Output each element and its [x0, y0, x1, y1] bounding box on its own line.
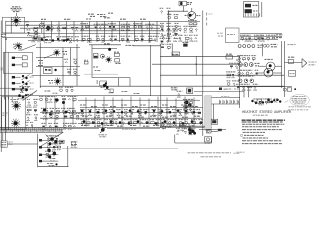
group band x62 lower block	[63, 113, 80, 129]
jack J2 cluster row 3	[22, 75, 24, 77]
label row above top chain	[41, 18, 46, 20]
group Q23 rays	[183, 99, 194, 111]
group S2 parts	[253, 99, 269, 105]
resistor R1	[34, 38, 37, 40]
wire mid-left h2	[36, 56, 63, 58]
svg-text:MODEL AA-181: MODEL AA-181	[253, 114, 269, 117]
label output row 3	[255, 62, 260, 64]
label AC left margin	[9, 141, 13, 143]
wire row2 bus	[28, 32, 160, 34]
wire right of bar 2	[211, 103, 240, 105]
wire vertical V5	[150, 45, 152, 96]
caption line 1	[188, 152, 232, 154]
capacitor C7 row2 mid group	[121, 36, 132, 42]
group band blobs row2	[83, 120, 86, 123]
wire heater run b	[107, 127, 160, 129]
wire drop x196	[195, 56, 197, 75]
group small parts x160-180 rows	[160, 23, 180, 43]
wire left enclosure inner b	[4, 97, 6, 130]
group S1 bottom cluster	[18, 94, 21, 97]
rectifier D3 blob	[47, 149, 50, 152]
label K1 right	[253, 4, 258, 6]
label right of R24	[122, 128, 136, 130]
wire can row drop	[261, 44, 263, 57]
group small parts top of mid-right	[160, 44, 173, 49]
group heater wiring cluster	[161, 124, 173, 129]
wire right of bar top	[211, 96, 240, 98]
resistor R27 stack b	[115, 59, 120, 62]
notes heading line	[242, 119, 285, 121]
cable tick texture	[2, 128, 61, 132]
label left column marks	[2, 34, 6, 36]
transistor Q8 star	[54, 78, 61, 86]
transistor Q9	[100, 54, 104, 58]
note item circle	[240, 134, 242, 136]
wire band horizontal x80-200 a	[78, 99, 200, 101]
group band x62 block	[61, 96, 77, 114]
group bias parts right upper	[64, 59, 77, 64]
wire vertical V1	[202, 11, 204, 137]
wire band horizontal x80-200 c	[78, 123, 202, 125]
label AC box	[2, 142, 7, 144]
wire top bus 3	[20, 27, 160, 29]
capacitor C1	[34, 29, 38, 31]
wire lower left horizontal 2	[2, 37, 46, 39]
group above LS2	[19, 87, 30, 93]
wire mid-left v2	[62, 48, 64, 87]
switch S1 contact row 3	[12, 76, 15, 78]
group output row 2	[237, 56, 256, 62]
transistor Q22 low	[250, 79, 254, 83]
wire T2 right leads	[275, 65, 282, 67]
wire top chain partial bus a	[80, 30, 160, 32]
note line 8	[242, 143, 282, 145]
wire lower bus 3	[40, 117, 202, 119]
resistor R15 top-right row	[254, 35, 265, 41]
wire bus extension	[63, 128, 80, 130]
resistor R25 right of T4	[207, 129, 211, 133]
node A	[16, 25, 17, 26]
label loop top	[104, 43, 110, 45]
transformer T3 cluster	[46, 136, 61, 150]
capacitor C9 electrolytic	[179, 1, 186, 6]
transistor Q4 power	[188, 12, 196, 20]
relay K1 box	[243, 2, 258, 17]
resistor R19 tag	[172, 52, 180, 56]
resistor R21 out right	[288, 59, 293, 63]
notes heading line 2	[242, 121, 283, 123]
note line 3	[242, 129, 282, 131]
wire bottom loop horizontal	[175, 142, 212, 144]
wire loop drop right	[117, 78, 119, 87]
group band top cluster	[59, 87, 73, 92]
resistor R17 elements	[45, 69, 47, 71]
group band row lower	[80, 120, 203, 126]
wire power bus 2	[0, 129, 63, 131]
node mid junction	[196, 63, 197, 64]
transistor Q2 group	[80, 24, 89, 30]
resistor R3 group	[70, 25, 80, 31]
wire bottom bus	[0, 126, 212, 128]
wire right row bus c	[240, 38, 278, 40]
group band bottom labels	[81, 124, 88, 126]
wire row3 bus	[28, 40, 156, 42]
transformer T4 driver	[188, 127, 192, 131]
transformer T1 can	[39, 23, 44, 28]
balloon note outline	[290, 94, 310, 106]
speaker LS2	[12, 101, 21, 110]
wire band cross verticals	[45, 97, 47, 127]
resistor R17 box	[44, 68, 52, 74]
resistor R4 row2 group	[31, 36, 42, 42]
wire bottom loop vertical	[174, 135, 176, 144]
wire left enclosure inner	[8, 97, 10, 130]
svg-text:HEATHKIT STEREO AMPLIFIER: HEATHKIT STEREO AMPLIFIER	[242, 110, 292, 114]
group T4 surround	[184, 129, 196, 135]
label PL1	[205, 143, 212, 145]
switch S1 contact row 5	[12, 88, 15, 90]
wire bottom loop vertical right	[211, 137, 213, 143]
capacitor C11 top-right row	[240, 35, 253, 41]
label band top row	[45, 90, 51, 92]
diode D2	[183, 44, 187, 47]
label above band c	[134, 92, 140, 94]
rectifier D4 blob	[53, 152, 56, 155]
wire drop b	[247, 87, 249, 98]
resistor R27 stack a	[114, 53, 119, 56]
wire C9 lead	[182, 6, 184, 12]
label can row right	[271, 43, 278, 45]
wire T3 diagonal a	[39, 132, 63, 147]
balloon note text	[293, 96, 306, 98]
wire power mid stub	[7, 143, 37, 145]
switch S3 contact row 3	[39, 154, 42, 156]
plug AC box	[1, 141, 7, 147]
wire drop x172	[171, 44, 173, 57]
transistor Q11 right col group	[229, 63, 239, 68]
label above band a	[109, 92, 114, 94]
diode D8 row marks	[41, 38, 43, 40]
group band left part x26-40	[25, 99, 39, 127]
pad box below Q24	[110, 89, 113, 92]
group band row mids	[80, 110, 201, 116]
caption copyright	[234, 152, 241, 154]
switch S3 contact row 1	[39, 139, 42, 141]
wire loop top edge	[92, 48, 117, 50]
wire band lower join	[160, 125, 205, 127]
transistor Q6 driver	[53, 49, 60, 56]
note right margin top	[289, 106, 312, 108]
label T3 right	[71, 141, 78, 143]
diode D1 row2 group	[56, 37, 69, 42]
resistor R20 right col	[226, 56, 233, 59]
resistor R8 row2 mid group	[82, 36, 93, 42]
capacitor C26 on top edge	[108, 48, 111, 51]
group band labels mid	[82, 115, 88, 117]
group S2 dark marks left	[251, 100, 253, 102]
switch S3 spine	[37, 134, 39, 167]
jack J4 cluster row 5	[22, 87, 24, 89]
wire vertical V6	[160, 44, 162, 128]
label small above mid	[88, 13, 94, 15]
wire right row bus b	[240, 36, 282, 38]
wire box top-left outline	[2, 17, 24, 33]
wire mid-left h4	[32, 74, 80, 76]
wire band horizontal x80-200 b	[80, 107, 203, 109]
resistor R6 group	[108, 24, 117, 30]
wire lower bus 2	[40, 111, 200, 113]
wire T3 diagonal b	[46, 135, 59, 149]
speaker LS1	[12, 16, 21, 25]
note line 5	[244, 134, 264, 136]
wire lower left horizontal	[2, 32, 40, 34]
transistor Q18 out	[244, 63, 248, 67]
capacitor C10 right col	[226, 28, 240, 43]
capacitor C16 electrolytic	[47, 26, 50, 31]
wire net stub	[133, 45, 161, 47]
wire S1 left col	[4, 52, 6, 99]
label left enclosure mid	[3, 112, 8, 114]
transistor Q21 low	[244, 79, 248, 83]
capacitor C14 blob	[48, 155, 51, 158]
wire mid-left v4	[76, 44, 78, 86]
lamp PL1 box	[204, 137, 211, 142]
group far-left parts upper	[160, 8, 171, 14]
transistor Q16 pair	[263, 44, 266, 47]
switch S1 contact row 4	[12, 82, 15, 84]
wire mid-left v3	[69, 48, 71, 76]
wire mid-left h3	[36, 65, 80, 67]
capacitor C15 dark	[65, 111, 68, 114]
jack J3 cluster row 4	[22, 81, 24, 83]
wire right row bus a	[240, 33, 282, 35]
speaker LS3	[11, 119, 20, 128]
resistor R5 row2 group	[69, 37, 79, 43]
resistor R10 row2 mid group	[134, 36, 144, 41]
group power lower parts	[45, 151, 56, 157]
wire mid bus 2	[152, 63, 240, 65]
label terminal strip	[181, 125, 187, 127]
wire lower bus 1	[0, 95, 202, 97]
label band top left	[171, 87, 178, 89]
wire left enclosure inner c	[11, 97, 13, 102]
balloon pointer	[285, 101, 289, 103]
wire inner vertical	[10, 17, 12, 33]
label Q8 left	[48, 80, 53, 82]
wire feedback run	[194, 91, 244, 93]
wire left enclosure 2	[2, 97, 26, 130]
transistor Q20 low	[238, 79, 242, 83]
wire loop bottom edge	[92, 77, 130, 79]
resistor R7 group	[133, 24, 142, 28]
transistor Q19 out	[249, 63, 253, 67]
wire diagonal arrow	[23, 91, 38, 101]
group S2 surround	[266, 99, 277, 103]
wire left rail B	[5, 21, 7, 133]
wire faint bottom left	[62, 147, 178, 149]
label caps row	[221, 96, 230, 98]
wire power bus 4	[0, 132, 63, 134]
switch S1 contact row 1	[12, 57, 15, 59]
resistor R9 row2 mid group	[109, 36, 117, 40]
terminal box TB1	[289, 71, 296, 77]
wire loop top feed	[89, 44, 121, 46]
group Q5 surround	[13, 44, 23, 50]
resistor R12 left of Q4 group	[167, 15, 179, 19]
wire diagonal lead	[22, 45, 36, 51]
resistor R29 small	[219, 88, 222, 91]
label left col rows	[38, 60, 43, 62]
transistor Q23 band dark	[185, 101, 189, 105]
label power lower	[50, 158, 56, 160]
group S2 dark marks	[267, 98, 270, 101]
label strap	[209, 13, 213, 15]
transistor Q24 bottom dark	[100, 81, 107, 86]
note line 7	[242, 140, 281, 142]
connector J1 pins	[244, 13, 246, 16]
transistor Q3 group	[94, 24, 108, 29]
group band blobs row1	[81, 109, 84, 112]
wire power bottom	[38, 166, 68, 168]
label can row	[258, 44, 263, 46]
transistor Q15 can	[252, 45, 255, 48]
wire loop left vertical	[91, 45, 93, 78]
wire vertical drops top chain	[43, 21, 45, 42]
wire left rail A	[0, 21, 2, 153]
note line 6	[243, 137, 268, 139]
resistor R2 group	[45, 25, 53, 31]
note line 1	[242, 123, 284, 125]
wire horizontal y11	[168, 10, 188, 12]
label right of rails	[288, 44, 296, 46]
group output bottom labels	[236, 84, 258, 90]
group Q24 marks	[105, 89, 110, 91]
group band x40 block	[39, 96, 60, 114]
resistor R14 in K1	[245, 9, 252, 13]
diode D7 dark	[49, 113, 52, 116]
transistor Q1	[35, 32, 38, 35]
wire Q24 feed	[96, 80, 98, 84]
note line 2	[242, 126, 279, 128]
wire top bus 1	[6, 20, 200, 22]
switch S1 enclosure outer	[3, 52, 32, 73]
transistor Q26 dark	[62, 101, 65, 104]
capacitor C6 row2 mid group	[96, 36, 106, 42]
resistor R13 in K1	[245, 4, 251, 8]
wire AC leads	[2, 133, 4, 141]
group bias parts right lower	[67, 69, 78, 75]
wire left top stub	[0, 87, 25, 89]
switch S2 wafer	[257, 99, 262, 104]
transistor Q12 can	[238, 45, 241, 48]
capacitor C8 row2 mid group	[148, 36, 159, 42]
capacitor C5 group	[145, 24, 155, 29]
resistor R23 below bar	[211, 119, 217, 124]
diode D5 mark	[54, 69, 56, 71]
label S1 left edge	[1, 67, 4, 69]
label top right pair	[226, 88, 233, 90]
wire T2 left leads	[258, 65, 266, 67]
capacitor C27 can	[94, 54, 99, 59]
capacitor bank C13	[218, 100, 220, 104]
wire vertical V4	[283, 41, 285, 97]
group left of T4	[176, 128, 186, 134]
pcb edge shaded bar	[205, 96, 212, 130]
resistor R11 below Q4 group	[188, 21, 197, 27]
label T4 left	[178, 129, 184, 131]
terminal box TB2	[71, 142, 76, 145]
potentiometer R24 volume	[101, 128, 105, 132]
wire top bus 2	[6, 24, 160, 26]
wire out right	[284, 61, 302, 63]
label POWER AMP net	[126, 44, 134, 46]
wire K1 drop	[261, 2, 263, 17]
wire mid bus 3	[160, 74, 284, 76]
wire bar bottom stub	[213, 104, 215, 120]
connector P1 chevron	[302, 59, 307, 63]
group band row1 labels	[80, 104, 87, 106]
label Q4 left	[185, 14, 189, 16]
caption line 2	[201, 156, 222, 158]
wire heater run a	[80, 127, 99, 129]
wire mid-left h1	[36, 47, 80, 49]
wire mid-left v1	[39, 43, 41, 88]
transistor Q5 cluster above bank	[15, 42, 22, 49]
resistor R26 far right	[218, 129, 222, 131]
switch S1 contact row 2	[12, 64, 15, 66]
strap marks column	[206, 13, 208, 16]
label left enclosure top	[11, 99, 19, 101]
wire top loop right	[240, 86, 292, 88]
group parts rows left of V1 lower	[162, 35, 198, 41]
label R24	[99, 134, 108, 136]
transformer T3 dark core	[50, 137, 54, 141]
capacitor C2 group	[56, 25, 66, 31]
label top-right row	[276, 34, 283, 36]
wire T4 right leads	[199, 129, 226, 131]
resistor R28 right of T3	[60, 140, 65, 143]
wire mid bus 4	[40, 85, 284, 87]
wire mid bus 1	[160, 55, 240, 57]
label Q4 right	[196, 15, 200, 17]
part number	[237, 151, 245, 153]
wire S1 left col b	[7, 52, 9, 99]
wire power right vertical	[67, 146, 69, 167]
label loop inner left	[93, 66, 98, 68]
transistor Q13 can	[243, 45, 246, 48]
wire LS1 stub	[15, 13, 17, 16]
group parts rows left of V1	[160, 26, 197, 32]
transistor Q17 out	[239, 63, 243, 67]
transistor Q25 dark	[55, 98, 58, 101]
group band x42 lower block	[41, 113, 59, 129]
fuse F1	[283, 88, 286, 91]
note under balloon	[288, 109, 309, 111]
potentiometer R22 band top	[187, 88, 193, 94]
note line 4	[243, 131, 265, 133]
transistor Q14 can	[247, 45, 250, 48]
label above band b	[122, 91, 128, 93]
label P1 lines	[309, 61, 317, 63]
capacitor C3 row2 group	[44, 37, 52, 43]
group output row 4	[237, 70, 258, 76]
group power bottom row	[47, 163, 54, 165]
wire drop a	[243, 87, 245, 98]
wire loop drop right b	[129, 78, 131, 87]
label T2	[265, 58, 274, 60]
label Q6 right	[62, 51, 67, 53]
terminal E1	[294, 88, 296, 90]
